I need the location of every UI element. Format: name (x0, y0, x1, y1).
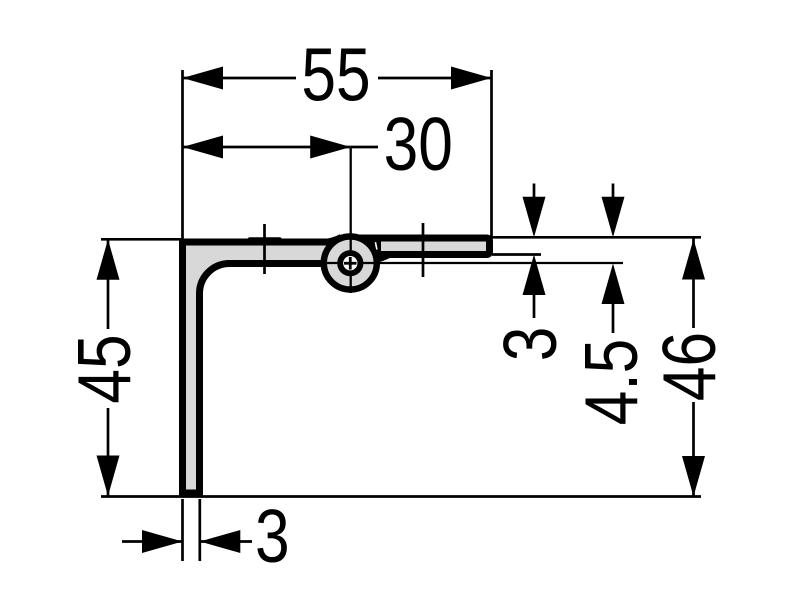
svg-text:55: 55 (301, 33, 370, 117)
dim 30 arrow left (183, 136, 224, 159)
dim 30 arrow right (310, 136, 351, 159)
dim 3 bottom arrow left (142, 530, 183, 553)
svg-text:3: 3 (489, 327, 573, 362)
bracket leaf 2 (flat hinge leaf) (378, 238, 490, 255)
pivot horizontal centerline / 4.5 extension (318, 262, 623, 264)
dim 3 bottom: extension lines (181, 499, 184, 561)
dim 55 extension line right (490, 70, 493, 237)
dim 4.5: lower arrow (602, 264, 625, 305)
svg-text:4.5: 4.5 (570, 339, 654, 426)
dim 4.5: lower tail (612, 299, 615, 333)
hinge seam white sliver (375, 242, 377, 249)
dim 46 line lower (692, 402, 695, 497)
dim 3 right: lower arrow (523, 255, 546, 296)
svg-text:46: 46 (648, 332, 732, 401)
dim 3 bottom arrow right (200, 530, 241, 553)
dim 3 right: upper tail (533, 184, 536, 211)
pivot screw cross (344, 262, 357, 265)
bottom extension line (shared 45/46) (101, 495, 701, 498)
dim 45 arrow bottom (97, 456, 120, 497)
screw-head bump on top edge (244, 237, 285, 241)
dim 46 arrow top (682, 239, 705, 280)
left top junction filler (324, 234, 343, 245)
dim 45 line upper (107, 239, 110, 329)
right hole centerline (422, 223, 425, 277)
dim 4.5: upper arrow (602, 197, 625, 238)
dim 55 arrow right (451, 67, 492, 90)
top-right extension line (492, 236, 701, 239)
dim 3 right: lower tail (533, 290, 536, 318)
hinge seam notch (366, 241, 374, 251)
svg-text:45: 45 (63, 334, 147, 403)
bottom S-curve filler between bulge and leaf 2 (372, 252, 390, 264)
left hole centerline (263, 224, 266, 274)
svg-text:3: 3 (255, 495, 290, 579)
dim 4.5: upper tail (612, 184, 615, 211)
dim 55 extension line left (181, 70, 184, 240)
dim 45 extension line top (101, 238, 181, 241)
dim 55 line (183, 77, 297, 80)
dim 55 arrow left (183, 67, 224, 90)
dim 3 right: bottom extension (492, 253, 541, 256)
dim 46 line upper (692, 237, 695, 328)
dim 3 right: upper arrow (523, 197, 546, 238)
hinge knuckle bulge (324, 237, 377, 290)
pivot vertical centerline (350, 148, 352, 293)
dim 3 bottom: tails (122, 540, 183, 543)
top band filler over knuckle (355, 235, 379, 242)
svg-text:30: 30 (384, 103, 453, 187)
pivot inner ring (337, 250, 363, 276)
dim 45 line lower (107, 408, 110, 496)
dim 30 line (183, 146, 351, 149)
bracket leaf 1 (L-angle) (183, 242, 351, 493)
pivot pin face (343, 256, 357, 270)
dim 46 arrow bottom (682, 456, 705, 497)
dim 45 arrow top (97, 239, 120, 279)
